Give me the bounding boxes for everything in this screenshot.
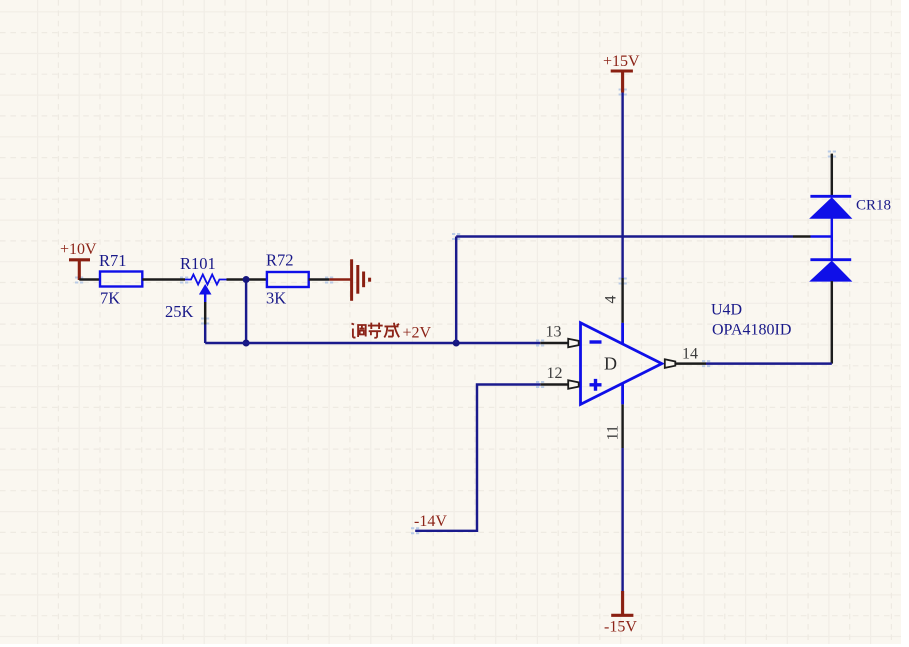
wire (feedback top): [456, 235, 793, 237]
svg-text:+15V: +15V: [603, 53, 640, 70]
wire (-14V): [415, 385, 540, 531]
op-amp U4D: [581, 302, 792, 405]
wire (+15V rail): [621, 93, 623, 279]
svg-text:CR18: CR18: [856, 198, 891, 214]
diode CR18 lower: [810, 260, 851, 281]
no-ERC / snap markers: [75, 89, 836, 535]
svg-text:-15V: -15V: [604, 619, 637, 636]
pin 13: [540, 323, 578, 347]
pin 12: [540, 365, 578, 389]
pin 14: [665, 345, 706, 368]
resistor R71: [99, 251, 142, 308]
wire net 调节成+2V: [205, 342, 540, 344]
wire (wiper down): [204, 302, 206, 325]
wire (junction drop): [245, 280, 247, 344]
wire (to ground): [329, 278, 351, 280]
wire: [309, 278, 330, 280]
wire (diode to output): [831, 281, 833, 364]
diode CR18 upper: [810, 196, 891, 218]
net label 调节成+2V: [352, 323, 400, 338]
power port -15V: [604, 591, 637, 636]
node junction: [243, 340, 250, 347]
svg-text:4: 4: [603, 296, 620, 304]
svg-text:R72: R72: [266, 251, 294, 270]
svg-text:U4D: U4D: [711, 302, 742, 319]
svg-text:+2V: +2V: [403, 325, 432, 342]
svg-text:R101: R101: [180, 254, 216, 273]
svg-text:3K: 3K: [266, 289, 286, 308]
wire (between diodes): [831, 218, 833, 260]
svg-text:25K: 25K: [165, 302, 194, 321]
wire (output run): [706, 362, 832, 364]
potentiometer R101: [165, 254, 227, 321]
wire (CR18 top): [831, 154, 833, 197]
pin 11: [605, 404, 623, 448]
wire: [79, 278, 100, 280]
svg-text:OPA4180ID: OPA4180ID: [712, 322, 791, 339]
ground: [352, 259, 370, 301]
svg-text:+10V: +10V: [60, 241, 97, 258]
wire (-15V rail): [621, 448, 623, 591]
svg-text:7K: 7K: [100, 289, 120, 308]
power port +10V: [60, 241, 97, 280]
svg-text:13: 13: [546, 323, 562, 340]
pin 4: [603, 278, 623, 323]
node junction: [453, 340, 460, 347]
wire (feedback up): [455, 237, 457, 344]
power port +15V: [603, 53, 640, 93]
node junction: [243, 276, 250, 283]
wire: [142, 278, 185, 280]
svg-text:-14V: -14V: [414, 513, 447, 530]
svg-text:R71: R71: [99, 251, 127, 270]
svg-text:11: 11: [605, 425, 622, 440]
wire: [227, 278, 267, 280]
resistor R72: [266, 251, 309, 308]
svg-text:D: D: [604, 354, 617, 374]
svg-text:12: 12: [547, 365, 563, 382]
svg-text:14: 14: [682, 345, 698, 362]
